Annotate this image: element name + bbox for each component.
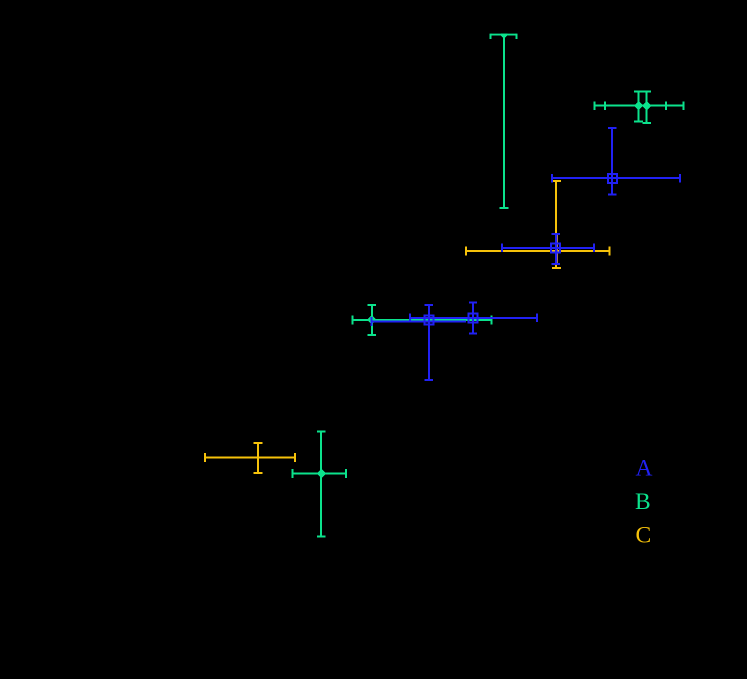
point B3 x-error caps <box>605 101 684 110</box>
point B3 y-error caps <box>642 91 651 123</box>
point B2 x-error caps <box>595 101 666 110</box>
point B2 y-error bar <box>638 91 640 121</box>
point C1 occluded-edge sliver <box>557 234 559 264</box>
point B5 diamond marker <box>317 469 326 478</box>
point A3 x-error bar <box>372 321 467 323</box>
point A2 y-error bar <box>555 234 557 264</box>
point C1 x-error caps <box>466 247 610 256</box>
point B5 y-error caps <box>317 432 326 537</box>
point B5 y-error bar <box>320 432 322 537</box>
point A1 y-error bar <box>611 128 613 194</box>
point C1 x-error bar <box>466 250 610 252</box>
point B4 x-error bar <box>352 319 491 321</box>
point A4 y-error bar <box>472 303 474 334</box>
point B3 x-error bar <box>605 105 684 107</box>
point C2 x-error bar <box>205 457 295 459</box>
point B2 x-error bar <box>595 105 666 107</box>
point A3 x-error left cap <box>371 317 373 326</box>
point B3 y-error bar <box>646 91 648 123</box>
point A4 x-error caps <box>410 314 537 322</box>
svg-text:C: C <box>636 523 652 549</box>
point A2 y-error caps <box>552 234 560 264</box>
point C2 y-error caps <box>254 443 263 473</box>
point B4 x-error caps <box>352 315 491 324</box>
point B3 diamond marker <box>642 101 651 110</box>
point B1 diamond marker <box>500 30 508 38</box>
point C1 y-error bar <box>555 181 557 268</box>
point A1 y-error caps <box>608 128 616 194</box>
point A4 x-error bar <box>410 317 537 319</box>
point B5 x-error bar <box>292 473 346 475</box>
point B4 diamond marker <box>367 315 376 324</box>
point A1 square marker <box>608 174 617 183</box>
point B1 y-error bar <box>503 35 505 208</box>
svg-text:B: B <box>635 489 651 515</box>
point C2 y-error bar <box>257 443 259 473</box>
point A3 y-error bar <box>428 305 430 380</box>
point B5 x-error caps <box>292 469 346 478</box>
point B4 y-error bar <box>371 305 373 335</box>
point A1 x-error caps <box>552 174 680 182</box>
point B1 x-error caps <box>490 30 516 39</box>
point A4 y-error caps <box>469 303 477 334</box>
point C1 y-error caps <box>552 181 561 268</box>
point A2 x-error caps <box>502 244 594 252</box>
point A3 y-error caps <box>425 305 433 380</box>
svg-text:A: A <box>636 455 653 481</box>
point B2 diamond marker <box>634 101 643 110</box>
point B4 y-error caps <box>367 305 376 335</box>
point B1 (clipped at axes top) <box>490 30 516 208</box>
point B1 y-error bottom cap <box>500 207 509 209</box>
point B2 y-error caps <box>634 91 643 121</box>
point A1 x-error bar <box>552 177 680 179</box>
point C2 x-error caps <box>205 453 295 462</box>
point B1 x-error bar <box>490 34 516 36</box>
point A3 square marker <box>424 316 433 325</box>
point A2 x-error bar <box>502 247 594 249</box>
point A2 square marker <box>551 244 560 253</box>
point A4 square marker <box>469 314 478 323</box>
